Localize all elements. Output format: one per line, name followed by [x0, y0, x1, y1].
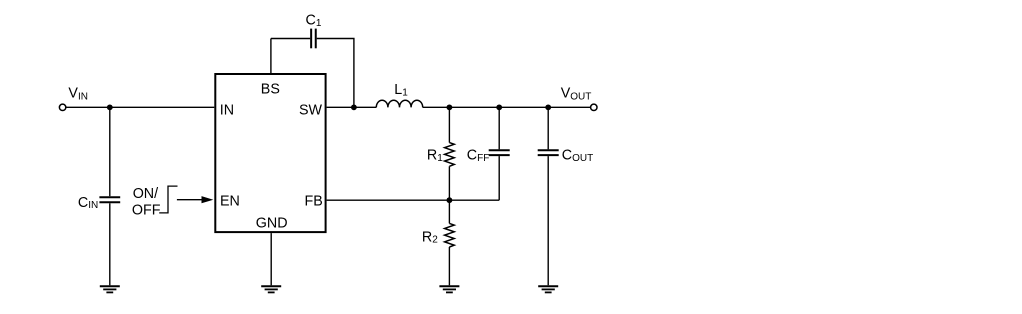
svg-text:FB: FB: [305, 194, 323, 210]
svg-text:R1: R1: [427, 148, 443, 165]
wire R2 top lead: [448, 200, 450, 223]
svg-text:SW: SW: [299, 102, 323, 118]
wire VIN to IN pin: [66, 106, 214, 108]
arrowhead into EN: [202, 196, 214, 203]
node SW junction: [351, 104, 357, 110]
svg-text:BS: BS: [261, 81, 280, 97]
node VIN terminal: [59, 104, 65, 110]
capacitor CIN: [99, 197, 120, 202]
wire BS stub: [270, 39, 272, 74]
wire SW pin to rail: [327, 106, 377, 108]
junction dot CIN/rail: [107, 104, 113, 110]
svg-text:C1: C1: [306, 12, 322, 29]
svg-text:OFF: OFF: [132, 203, 161, 219]
wire C1 left: [271, 38, 310, 40]
wire CFF top lead: [498, 107, 500, 149]
svg-text:CIN: CIN: [78, 195, 98, 211]
resistor R1: [445, 143, 455, 167]
junction dot COUT/rail: [545, 104, 551, 110]
wire COUT top lead: [547, 107, 549, 149]
label ON/OFF: [132, 186, 161, 219]
svg-text:GND: GND: [256, 215, 288, 231]
wire R2 bottom lead: [448, 247, 450, 285]
junction dot R1/rail: [447, 104, 453, 110]
ground IC GND: [261, 286, 281, 292]
wire FB row: [327, 199, 500, 201]
wire CIN bottom lead: [109, 203, 111, 285]
wire EN arrow shaft: [177, 199, 202, 201]
ground R2: [439, 286, 459, 292]
capacitor C1: [311, 29, 316, 49]
svg-text:L1: L1: [394, 82, 408, 99]
svg-text:R2: R2: [422, 229, 438, 245]
svg-text:EN: EN: [220, 194, 240, 210]
wire R1 top lead: [448, 107, 450, 142]
node VOUT terminal: [591, 104, 597, 110]
wire C1 right to SW node: [317, 39, 354, 108]
IC U1 box: [215, 74, 325, 232]
svg-text:ON/: ON/: [133, 186, 158, 202]
wire COUT bottom lead: [547, 156, 549, 285]
wire L1 to VOUT terminal: [423, 106, 591, 108]
step waveform symbol: [159, 186, 177, 213]
junction dot CFF/rail: [496, 104, 502, 110]
svg-text:COUT: COUT: [562, 148, 593, 165]
wire GND pin: [270, 233, 272, 285]
wire CIN top lead: [109, 107, 111, 196]
svg-text:VIN: VIN: [68, 85, 88, 102]
capacitor CFF: [489, 150, 510, 155]
ground COUT: [538, 286, 558, 292]
svg-text:CFF: CFF: [467, 148, 490, 165]
wire CFF bottom lead to FB row: [498, 156, 500, 200]
svg-text:VOUT: VOUT: [561, 85, 592, 102]
svg-text:IN: IN: [220, 102, 234, 118]
wire R1 bottom lead: [448, 166, 450, 200]
junction dot FB node: [447, 197, 453, 203]
ground CIN: [100, 286, 120, 292]
capacitor COUT: [538, 150, 559, 155]
inductor L1: [376, 100, 422, 107]
resistor R2: [445, 223, 455, 247]
